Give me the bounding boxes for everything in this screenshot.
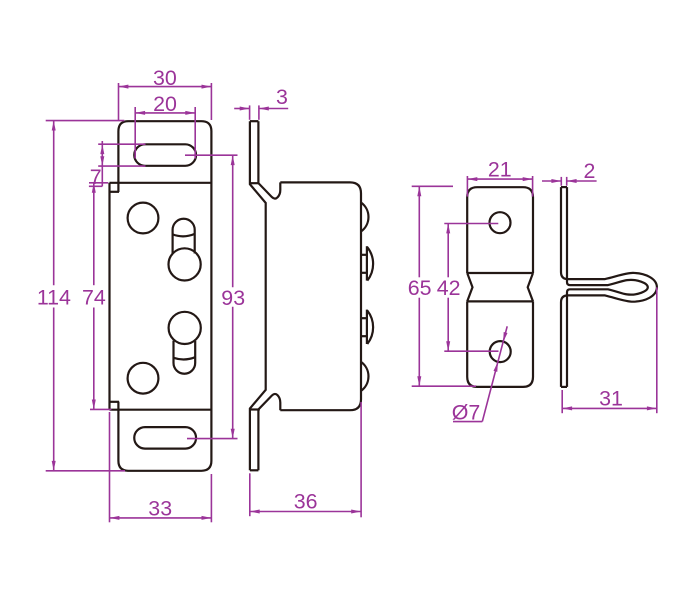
side view: rivet bump 1 xyxy=(361,203,368,232)
front view: bottom-left notch xyxy=(110,401,119,403)
side view: rivet bump 4 xyxy=(361,362,368,391)
side view: inner profile top bend xyxy=(258,121,280,198)
side view: screw head bump 3 xyxy=(361,310,373,344)
svg-text:42: 42 xyxy=(437,276,461,300)
dimension 114 (overall height) xyxy=(46,120,125,122)
front view: top slot xyxy=(134,144,196,166)
side view: inner profile bottom bend xyxy=(258,394,280,470)
svg-text:21: 21 xyxy=(488,158,512,182)
side view: bottom bend line tick xyxy=(250,408,260,410)
keeper side: inner line with loop eye xyxy=(567,187,648,387)
svg-text:93: 93 xyxy=(221,286,245,310)
side view: flange strip end caps xyxy=(250,120,259,122)
front view: upper spring pin capsule xyxy=(173,219,195,254)
front view: top-left notch xyxy=(110,191,119,193)
side view: housing body outline xyxy=(280,182,361,410)
svg-text:3: 3 xyxy=(276,85,288,109)
keeper side: outer line with loop xyxy=(561,187,657,387)
svg-text:20: 20 xyxy=(153,92,177,116)
dimension 74 (body height) xyxy=(89,182,108,184)
dimension 3 (flange thickness) xyxy=(249,105,251,119)
svg-text:30: 30 xyxy=(153,66,177,90)
svg-text:31: 31 xyxy=(599,387,623,411)
svg-text:74: 74 xyxy=(82,285,106,309)
dimension 20 (slot pitch) xyxy=(134,107,136,159)
dimension diameter 7 (hole callout) xyxy=(482,326,507,421)
dimension 30 (top flange width) xyxy=(118,83,120,120)
keeper plate: right V notch xyxy=(528,273,533,301)
front view: lower spring pin capsule xyxy=(174,341,196,374)
keeper plate: lower half outline xyxy=(467,301,533,387)
keeper plate: bottom hole xyxy=(490,341,511,362)
front view: mounting plate outline xyxy=(118,121,211,471)
front view: body left edge xyxy=(108,183,110,410)
front view: top fold line xyxy=(110,182,212,184)
svg-text:Ø7: Ø7 xyxy=(452,400,481,424)
keeper plate: left V notch xyxy=(467,273,472,301)
keeper plate: bend band lines xyxy=(467,272,533,274)
svg-text:33: 33 xyxy=(148,497,172,521)
side view: outer profile (flange strip + front face) xyxy=(250,121,266,470)
dimension 2 (keeper thickness) xyxy=(560,177,562,186)
svg-text:114: 114 xyxy=(37,285,71,309)
front view: lower left hole xyxy=(128,363,159,394)
dimension 31 (keeper side depth) xyxy=(561,390,563,413)
svg-text:65: 65 xyxy=(408,276,432,300)
svg-text:36: 36 xyxy=(294,489,318,513)
keeper plate: upper half outline xyxy=(467,187,533,273)
front view: lower roller circle xyxy=(169,312,201,344)
front view: upper roller circle xyxy=(169,248,201,280)
front view: bottom slot xyxy=(134,427,196,449)
keeper plate: top hole xyxy=(490,212,511,233)
svg-text:2: 2 xyxy=(584,159,596,183)
dimension 36 (side view depth) xyxy=(249,473,251,516)
side view: screw head bump 2 xyxy=(361,246,373,280)
dimension 21 (keeper width) xyxy=(466,176,468,197)
dimension 33 (body width) xyxy=(109,412,111,522)
keeper side: strip end caps xyxy=(561,186,567,188)
front view: upper left hole xyxy=(128,203,159,234)
dimension 42 (hole pitch) xyxy=(444,223,498,225)
dimension 65 (keeper height) xyxy=(412,185,453,187)
dimension 7 (slot width) xyxy=(98,143,145,145)
side view: top bend line tick xyxy=(249,182,259,184)
dimension 93 (slot to slot) xyxy=(185,154,238,156)
svg-text:7: 7 xyxy=(90,165,102,189)
front view: bottom fold line xyxy=(110,409,212,411)
